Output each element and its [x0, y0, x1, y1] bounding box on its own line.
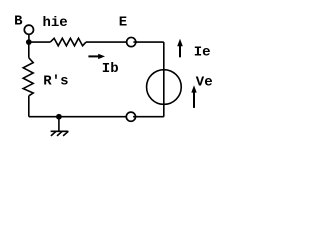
svg-text:Ib: Ib: [102, 61, 119, 77]
source U1 (current source circle, line through): [147, 70, 182, 105]
wire: bottom rail: [29, 116, 164, 118]
node B terminal circle: [24, 25, 33, 34]
svg-text:E: E: [119, 14, 127, 30]
resistor hie (horizontal zigzag): [50, 38, 86, 46]
junction dot at B corner: [26, 39, 32, 45]
arrow Ve (points up): [191, 85, 196, 108]
junction dot at ground tap: [56, 114, 62, 120]
svg-text:Ie: Ie: [194, 45, 211, 61]
svg-text:B: B: [14, 14, 23, 30]
wire: top rail left segment (B junction to hie): [29, 41, 51, 43]
arrow Ie (points up): [177, 39, 183, 58]
wire: top rail right segment (hie to top-right corner): [86, 41, 164, 43]
node E terminal circle (inline on top rail): [127, 37, 137, 46]
svg-text:hie: hie: [43, 15, 68, 31]
wire: right rail: [163, 42, 165, 117]
wire: left rail lower segment: [28, 96, 30, 117]
svg-text:Ve: Ve: [196, 74, 213, 90]
arrow Ib (points right): [88, 54, 105, 59]
ground: [51, 117, 69, 136]
terminal circle (inline on bottom rail): [126, 112, 136, 121]
svg-text:R's: R's: [43, 74, 68, 90]
resistor R's (vertical zigzag): [23, 58, 33, 96]
wire: left rail upper segment: [28, 42, 30, 58]
wire: stub from B circle to junction: [28, 35, 30, 42]
